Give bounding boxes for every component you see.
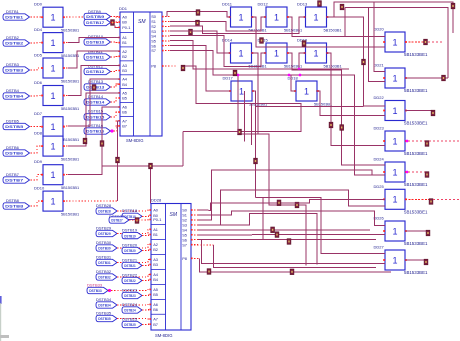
wire input stub DSTB7 to DD [31,175,44,180]
net marker S4 [271,227,275,233]
svg-text:1: 1 [392,136,397,146]
wire pin stub y98.0 [116,97,121,99]
svg-text:DSTB2: DSTB2 [5,42,23,46]
svg-text:B1: B1 [122,40,127,45]
svg-text:DSTB21: DSTB21 [122,257,138,262]
junction x238 on S7 net [237,74,240,77]
svg-text:5B1503B1: 5B1503B1 [61,137,79,142]
svg-text:DD24: DD24 [374,157,385,162]
wire stub DSTB13 to B pin [111,84,121,87]
svg-text:SM-8DIG: SM-8DIG [155,333,172,338]
wire net DD14 out path [252,53,306,265]
svg-text:DD7: DD7 [34,111,43,116]
port DSTB2 [3,40,30,46]
wire pin stub y84.2 [116,83,121,85]
wire stub DSTB11 to B pin [111,55,121,58]
wire net DD9 out to A pin [68,107,120,175]
port DSTB19 [122,232,142,238]
svg-text:1: 1 [392,106,397,116]
svg-text:1: 1 [238,12,243,22]
net marker DD21 out [442,75,446,81]
wire stub DSTB10 to B pin [111,41,121,44]
svg-text:5B1533BE1: 5B1533BE1 [404,182,428,187]
wire pin stub y42.6 [116,42,121,44]
wire wire DD26 out [405,230,428,232]
wire stub DSTB28 to DD28 A pin [117,210,151,211]
wire wire vertical x251 [251,104,253,146]
svg-text:1: 1 [392,167,397,177]
net marker DD20 out [424,39,428,45]
port DSTB12 [84,68,111,74]
port DSTB20 [122,247,142,253]
port DSTB9 [84,13,111,19]
net marker on S1 [196,20,200,26]
svg-text:DD5: DD5 [34,53,43,58]
net marker near y132 [238,129,242,135]
svg-text:DSTB32: DSTB32 [98,276,111,280]
wire DD28 S7 stub [191,244,198,246]
svg-text:5B1503B1: 5B1503B1 [61,28,79,33]
wire stub DSTB29 to DD28 A pin [117,229,151,233]
wire net DD12 out to DD20 in1 trunk [288,17,385,36]
wire net P8 trunk [183,66,301,132]
wire net S5 to DD26 in2 [198,233,385,236]
wire S pin stub y36.0 [162,35,170,37]
net marker near DD16 label [302,41,306,47]
net marker on S3 [189,29,193,35]
svg-text:1: 1 [50,122,55,132]
wire stub DSTB34 to DD28 A pin [117,303,151,306]
wire net S1 to DD12 in [170,17,266,31]
buffer DD21 [383,68,407,88]
svg-text:DSTB5: DSTB5 [5,125,23,129]
buffer DD9 [41,165,65,185]
wire DD28 S1 stub [191,214,198,216]
svg-text:DD13: DD13 [297,2,308,7]
wire pin stub y120.8 [116,120,121,122]
buffer DD14 [229,43,254,63]
svg-text:DSTB22: DSTB22 [124,279,136,283]
svg-text:DSTB14: DSTB14 [86,101,105,105]
wire net S1 to DD26 in1 [198,211,385,225]
svg-text:5B1533BE1: 5B1533BE1 [404,151,428,156]
svg-text:DD28: DD28 [151,198,162,203]
net marker S0 trunk [277,200,281,206]
svg-text:DSTB31: DSTB31 [96,254,112,259]
wire net S5 trunk [170,41,349,69]
wire stub DSTB14 to B pin [111,98,121,102]
buffer DD17 [229,81,254,101]
net marker riser331 [329,122,333,128]
wire net S3 branch to DD25 in2 [221,190,386,225]
net marker on DD8 riser [83,138,87,144]
port DSTB1 [3,14,30,20]
svg-text:DSTB1: DSTB1 [6,9,20,14]
svg-text:1: 1 [392,195,397,205]
wire net staple to DD27 in2 [201,240,385,264]
wire net H1 branch to DD21 in1 [374,2,385,71]
wire DD28 S3 stub [191,224,198,226]
wire S pin stub y50.55 [162,50,170,52]
svg-text:DD11: DD11 [222,2,233,7]
wire DD28 S0 stub [191,209,198,211]
svg-text:DD1: DD1 [119,6,128,11]
port DSTB7 [3,177,30,183]
svg-text:B5: B5 [122,96,127,101]
svg-text:DSTB20: DSTB20 [122,242,138,247]
svg-text:1: 1 [274,12,279,22]
DD23 out pin dot [406,140,409,143]
wire input stub DSTB5 to DD [31,126,44,128]
svg-text:DSTB8: DSTB8 [5,205,23,209]
svg-text:DSTB10: DSTB10 [86,41,104,45]
svg-text:P0-1: P0-1 [122,25,130,30]
svg-text:5B1533BE1: 5B1533BE1 [404,88,428,93]
svg-text:5B1533BE1: 5B1533BE1 [404,241,428,246]
port DSTB32 [96,274,117,280]
svg-text:DSTB23: DSTB23 [124,294,136,298]
port DSTB34 [96,302,117,308]
wire net DD8 out to A pin [68,93,120,146]
wire net y17 ext to DD22 in1 [334,17,385,106]
net marker on DD9 riser [100,141,104,147]
buffer DD5 [41,58,65,78]
net marker DD26 out [426,230,430,236]
wire DD4 output stub [63,42,68,44]
port DSTB6 [3,150,30,156]
net marker y205 [295,202,299,208]
port DSTB24 [122,307,142,313]
wire stub DSTB24 to DD28 B pin [142,309,151,312]
port DSTB35 [96,315,117,321]
svg-text:5B1503B1: 5B1503B1 [61,79,79,84]
wire net S4 long trunk [198,229,370,231]
port DSTB3 [3,67,30,73]
svg-text:1: 1 [50,38,55,48]
wire stub DSTB31 to DD28 A pin [117,259,151,262]
wire S pin stub y31.15 [162,30,170,32]
svg-text:DSTB7: DSTB7 [5,179,23,183]
wire pin stub y37.5 [116,37,121,39]
svg-text:5B1503B1: 5B1503B1 [314,102,332,107]
wire input stub DSTB2 to DD [31,42,44,44]
svg-text:DSTB18: DSTB18 [122,208,138,213]
wire net DD18 out to DD22 in2 [316,91,385,115]
net marker DD25 out [429,199,433,205]
svg-text:DSTB24: DSTB24 [122,302,138,307]
port DSTB30 [96,245,117,251]
wire net S6 to DD17 in [170,46,231,91]
buffer DD18 [294,81,319,101]
svg-text:DSTB10: DSTB10 [88,34,104,39]
svg-text:DSTB19: DSTB19 [124,234,136,238]
svg-text:DSTB33: DSTB33 [89,289,102,293]
svg-text:DSTB1: DSTB1 [5,16,23,20]
wire P8 stub [162,65,177,67]
svg-text:B4: B4 [122,82,128,87]
wire net DD16 out to DD23 in2 [327,53,385,146]
buffer DD12 [264,7,289,27]
wire stub DSTB27 to P0-1 [129,219,151,222]
wire stub DSTB17 to B0 [111,22,121,24]
net marker DD27 out [424,259,428,265]
IC DD28 (SM-8DIG) [149,204,192,331]
buffer DD23 [383,131,407,151]
svg-text:DD21: DD21 [374,63,385,68]
wire stub DSTB22 to DD28 B pin [142,280,151,281]
svg-text:DSTB6: DSTB6 [5,152,23,156]
wire net branch toward DD22 in1 [256,105,364,107]
port DSTB13 [84,84,111,90]
wire stub DSTB9 to A0 [111,16,121,18]
wire stub DSTB18 to DD28 B pin [142,215,151,216]
wire S pin stub y21.450000000000003 [162,20,170,22]
buffer DD8 [41,136,65,156]
wire input stub DSTB1 to DD [31,16,44,18]
svg-text:B2: B2 [153,247,158,252]
svg-text:DSTB7: DSTB7 [6,172,20,177]
svg-text:DSTB3: DSTB3 [6,62,20,67]
svg-text:1: 1 [50,197,55,207]
svg-text:DSTB25: DSTB25 [124,323,136,327]
svg-text:DSTB4: DSTB4 [6,88,20,93]
wire net H2 branch to DD21 in2 [368,8,385,82]
wire stub DSTB32 to DD28 A pin [117,274,151,277]
svg-text:DSTB34: DSTB34 [96,297,112,302]
port DSTB31 [96,259,117,265]
svg-text:DSTB12: DSTB12 [86,70,104,74]
wire pin stub y79.1 [116,78,121,80]
svg-text:B7: B7 [122,124,127,129]
svg-text:DSTB30: DSTB30 [98,247,111,251]
svg-text:DSTB20: DSTB20 [124,249,136,253]
port DSTB33 [87,287,111,293]
wire net DD13 out to top trunk [327,2,453,33]
junction S5 branch [298,68,301,71]
net marker at DSTB17 tip [111,20,115,26]
wire wire vertical x244 [244,91,246,142]
svg-text:DSTB35: DSTB35 [98,317,111,321]
svg-text:1: 1 [50,13,55,23]
buffer DD0 [41,7,65,27]
net marker near DD15 label [260,38,264,44]
svg-text:DD9: DD9 [34,159,43,164]
wire net DD4 out to A pin [68,38,120,43]
port DSTB5 [3,123,30,129]
svg-text:DSTB31: DSTB31 [98,261,111,265]
svg-text:5B1503B1: 5B1503B1 [61,212,79,217]
net marker S5 [275,232,279,238]
wire stub DSTB30 to DD28 A pin [117,244,151,248]
net marker on x363 [362,59,366,65]
svg-text:5B1503B1: 5B1503B1 [324,28,342,33]
wire DD28 S4 stub [191,229,198,231]
wire wire DD21 out [405,77,448,79]
wire net DD5 out to A pin [68,51,120,68]
svg-text:DSTB34: DSTB34 [98,304,111,308]
svg-text:DSTB23: DSTB23 [122,287,138,292]
wire pin stub y27.3 [116,26,121,28]
wire S pin stub y16.6 [162,16,170,18]
wire DD28 S6 stub [191,239,198,241]
wire net S0 to DD11 in [167,12,231,18]
svg-text:DD27: DD27 [374,245,385,250]
net marker on branch [149,163,153,169]
svg-text:5B1503B1: 5B1503B1 [61,185,79,190]
wire net S7 descent trunk [213,245,376,268]
wire wire top trunk 2 [345,8,448,78]
svg-text:DD6: DD6 [34,80,43,85]
wire DD7 output stub [63,125,68,127]
junction on S7 net [288,74,291,77]
left edge blue tick [0,296,2,304]
svg-text:5B1503B1: 5B1503B1 [61,106,79,111]
wire wire DD24 out [408,171,427,173]
wire wire DD27 out [405,259,426,261]
wire wire DD25 out ext [433,198,460,200]
net marker trunk2 [340,4,344,10]
svg-text:DD8: DD8 [34,131,43,136]
net marker DD22 out [431,110,435,116]
svg-text:SM-8DIG: SM-8DIG [126,138,143,143]
wire S pin stub y45.7 [162,45,170,47]
svg-text:DSTB4: DSTB4 [5,95,24,99]
wire DD8 output stub [63,145,68,147]
svg-text:DSTB9: DSTB9 [86,15,104,19]
svg-text:DSTB29: DSTB29 [96,225,112,230]
svg-text:B7: B7 [153,322,158,327]
wire net DD6 out to A pin [68,65,120,95]
svg-text:DSTB28: DSTB28 [96,203,112,208]
wire pin stub y107.0 [116,106,121,108]
svg-text:DD0: DD0 [34,2,43,7]
svg-text:5B1533BE1: 5B1533BE1 [404,52,428,57]
svg-text:B1: B1 [153,232,158,237]
buffer DD6 [41,86,65,106]
wire stub DSTB35 to DD28 A pin [117,318,151,321]
wire input stub DSTB3 to DD [31,68,44,70]
svg-text:DSTB27: DSTB27 [111,219,123,223]
port DSTB15 [84,114,111,120]
wire S pin stub y26.3 [162,25,170,27]
svg-text:1: 1 [50,91,55,101]
svg-text:B6: B6 [122,110,127,115]
svg-text:DSTB11: DSTB11 [86,56,104,60]
svg-text:S7: S7 [182,242,187,247]
wire net S6 branch to DD27 in1 [256,197,386,253]
wire wire y134 left extension [238,133,258,135]
left edge faint border [0,303,1,341]
svg-text:1: 1 [239,86,244,96]
wire input stub DSTB8 to DD [31,201,44,206]
svg-text:1: 1 [313,48,318,58]
port DSTB4 [3,93,30,99]
port DSTB22 [122,277,142,283]
wire wire P8 stub ext [191,257,199,259]
svg-text:P8: P8 [182,256,187,261]
wire pin stub y22.1 [116,21,121,23]
buffer DD25 [383,189,407,209]
svg-text:DSTB32: DSTB32 [96,269,112,274]
wire DD28 S5 stub [191,234,198,236]
port DSTB16 [84,128,114,134]
wire DD9 output stub [63,174,68,176]
svg-text:DD4: DD4 [34,27,43,32]
wire net S3 to DD14 in [170,31,231,53]
svg-text:1: 1 [274,48,279,58]
wire wire DD22 out [405,110,433,112]
wire net S2 to DD13 in [170,17,306,33]
wire wire branch horizontal [102,165,183,167]
svg-text:DSTB22: DSTB22 [122,272,138,277]
svg-text:1: 1 [50,63,55,73]
net marker on DD17 riser [254,158,258,164]
wire pin stub y112.1 [116,111,121,113]
port DSTB23 [122,292,142,298]
buffer DD27 [383,250,407,270]
svg-text:B5: B5 [153,292,158,297]
net marker DD23 out [425,141,429,147]
svg-text:DD23: DD23 [374,126,385,131]
wire net DD15 out to DD24 in1 [288,53,385,165]
DD24 out pin dot [406,171,409,174]
wire net S6 long trunk [198,239,376,241]
svg-text:1: 1 [392,73,397,83]
svg-text:DD12: DD12 [258,2,269,7]
svg-text:B3: B3 [153,262,158,267]
wire DD10 output long stub [63,200,118,202]
svg-text:5B1503B1: 5B1503B1 [61,157,79,162]
svg-text:DD10: DD10 [34,186,45,191]
wire DD0 out to DSTB9 net [63,16,84,18]
svg-text:B4: B4 [153,277,159,282]
wire wire stub x345 [344,8,346,37]
wire wire DD25 out [405,198,431,200]
svg-text:DSTB33: DSTB33 [87,282,103,287]
wire stub DSTB19 to DD28 B pin [142,235,151,236]
svg-text:P8: P8 [151,64,156,69]
svg-text:DSTB21: DSTB21 [124,264,136,268]
wire stub DSTB33 to DD28 A pin [108,289,151,290]
wire pin stub y56.3 [116,55,121,57]
svg-text:SM: SM [170,212,178,218]
buffer DD26 [383,221,407,241]
wire net P0-1 feed [115,26,120,28]
wire DD5 output stub [63,67,68,69]
svg-text:B6: B6 [153,307,158,312]
svg-text:1: 1 [392,255,397,265]
buffer DD7 [41,117,65,137]
wire net S7 branch to DD18 in [291,75,296,91]
buffer DD4 [41,33,65,53]
wire net DD7 out to A pin [68,79,120,126]
svg-text:DD22: DD22 [374,95,385,100]
buffer DD16 [304,43,329,63]
wire net S6 branch riser [262,197,264,239]
svg-text:DSTB8: DSTB8 [6,198,20,203]
svg-text:DD20: DD20 [374,27,385,32]
port DSTB21 [122,262,142,268]
buffer DD13 [304,7,329,27]
wire stub DSTB20 to DD28 B pin [142,250,151,251]
port DSTB29 [96,230,117,236]
wire stub DSTB25 to DD28 B pin [142,323,151,325]
wire wire DD20 out [405,41,426,43]
svg-text:B2: B2 [122,54,127,59]
wire stub DSTB21 to DD28 B pin [142,265,151,266]
wire input stub DSTB4 to DD [31,95,44,98]
wire wire DD23 out ext [429,140,460,142]
